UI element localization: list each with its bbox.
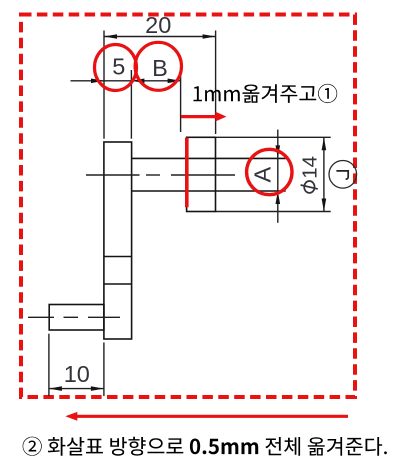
svg-text:10: 10 bbox=[64, 361, 90, 387]
column segment line lower bbox=[104, 283, 132, 285]
red circle around 5 bbox=[95, 45, 137, 91]
left boss (small block) bbox=[49, 305, 104, 331]
extension line left (x=104) bbox=[103, 31, 105, 139]
column segment line upper bbox=[104, 256, 132, 258]
svg-text:20: 20 bbox=[145, 12, 171, 38]
dimension A line bbox=[277, 130, 279, 223]
extension line flange right (x=215.6) bbox=[215, 31, 217, 135]
datum J letter (rotated, drawn) bbox=[336, 171, 348, 179]
flange top extension line bbox=[216, 136, 331, 138]
red arrow 1mm (pointing right) bbox=[181, 115, 218, 118]
dim20 left arrow bbox=[104, 34, 117, 39]
extension line B right (x=180.6) bbox=[180, 67, 182, 132]
datum circle J bbox=[329, 161, 357, 189]
dimension 10 ext line left bbox=[48, 334, 50, 396]
dim20 right arrow bbox=[203, 34, 216, 39]
dimension 10 line bbox=[49, 388, 104, 390]
red dashed revision border bbox=[21, 15, 355, 398]
flange bottom extension line bbox=[216, 211, 331, 213]
dim10 right arrow bbox=[91, 386, 104, 391]
dim10 left arrow bbox=[49, 386, 62, 391]
phi14 bottom arrow bbox=[322, 199, 327, 212]
shaft top edge bbox=[132, 157, 286, 159]
dimension 20 line bbox=[104, 36, 216, 38]
red circle around B bbox=[135, 42, 181, 90]
shaft centerline bbox=[86, 174, 235, 176]
instruction text bottom bbox=[23, 437, 387, 456]
svg-text:5: 5 bbox=[112, 54, 125, 80]
svg-text:A: A bbox=[250, 167, 276, 183]
dimension 10 ext line right bbox=[103, 343, 105, 397]
svg-text:B: B bbox=[152, 55, 168, 81]
shaft bottom edge bbox=[132, 190, 286, 192]
red highlight line on flange left edge bbox=[185, 138, 189, 208]
flange rectangle bbox=[187, 137, 216, 211]
red arrow bottom (pointing left) bbox=[75, 415, 348, 418]
dim5/B shared arrow bbox=[131, 79, 144, 84]
phi symbol circle bbox=[304, 181, 314, 193]
annotation text 1mm move bbox=[194, 84, 338, 103]
dimA top arrow bbox=[276, 145, 281, 158]
svg-text:14: 14 bbox=[299, 156, 322, 179]
red circle around A bbox=[247, 149, 292, 194]
dim5 left arrow bbox=[91, 79, 104, 84]
boss centerline bbox=[28, 316, 120, 318]
dimension 5/B line bbox=[71, 80, 181, 82]
extension line column right (x=131.4) bbox=[130, 70, 132, 139]
phi14 top arrow bbox=[322, 137, 327, 150]
dimA bottom arrow bbox=[276, 191, 281, 204]
dimB right arrow bbox=[168, 79, 181, 84]
phi symbol stem bbox=[301, 185, 318, 189]
vertical column (part outline) bbox=[104, 142, 132, 339]
dimension phi14 line bbox=[323, 137, 325, 211]
